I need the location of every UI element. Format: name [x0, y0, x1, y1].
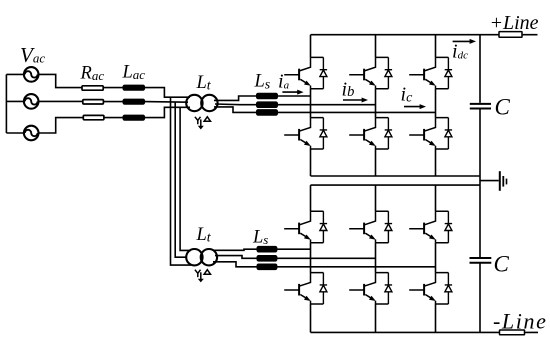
transistor Q4: [349, 118, 388, 149]
wire: source A to Rac row A: [39, 74, 83, 87]
diode D9: [385, 211, 392, 242]
wire: T2 out phase c: [213, 262, 257, 267]
wire: +Line rail: [311, 34, 538, 36]
wire: Ls to leg a (bridge 2): [277, 248, 311, 250]
wire: dc link top branch: [479, 35, 481, 176]
transistor Q2: [284, 118, 323, 149]
wire: leg a vertical (bridge1): [310, 35, 312, 176]
diode D2: [320, 118, 327, 149]
wire: Ls to leg b (bridge 1): [277, 104, 375, 106]
svg-text:C: C: [494, 252, 510, 277]
wye-delta symbol T1: [195, 117, 211, 130]
+Line terminal box: [499, 32, 522, 38]
wire: Ls to leg a (bridge 1): [277, 95, 310, 97]
wire: source B to Rac row B: [39, 100, 84, 102]
wye-delta symbol T2: [195, 270, 211, 283]
wire: leg a vertical (bridge2): [310, 185, 312, 332]
transistor Q10: [349, 273, 388, 304]
inductor Lac phase B: [123, 99, 144, 104]
wire: T2 out phase a: [213, 249, 257, 250]
transistor Q8: [284, 273, 323, 304]
transformer T2 primary winding: [186, 249, 202, 265]
ground: [499, 171, 501, 191]
diode D8: [320, 273, 327, 304]
wire: dc link bottom branch: [479, 185, 481, 332]
wire: leg b vertical (bridge2): [375, 185, 377, 332]
diode D7: [320, 211, 327, 242]
wire: Lac to transformer T1 phase C: [144, 107, 190, 117]
transistor Q3: [349, 57, 388, 88]
ac source phase A: [24, 67, 39, 82]
wire: bus stub phase B: [6, 100, 24, 102]
transistor Q1: [284, 57, 323, 88]
wire: bridge2 top rail: [311, 184, 481, 186]
wire: leg c vertical (bridge2): [435, 185, 437, 332]
wire: source C to Rac row C: [39, 118, 84, 133]
inductor Ls phase b: [257, 102, 277, 107]
transistor Q5: [409, 57, 448, 88]
svg-text:+Line: +Line: [490, 12, 539, 34]
inductor Lac phase A: [123, 85, 144, 90]
wire: Ls to leg c (bridge 2): [277, 266, 436, 268]
wire: tap phase B down to transformer T2: [175, 102, 187, 257]
ac source phase C: [24, 126, 39, 141]
current arrow idc: [453, 40, 472, 42]
diode D10: [385, 273, 392, 304]
diode D11: [445, 211, 452, 242]
inductor Ls phase c: [257, 110, 277, 115]
transistor Q6: [409, 118, 448, 149]
wire: -Line rail: [311, 331, 539, 333]
diode D12: [445, 273, 452, 304]
wire: Rac to Lac phase A: [103, 87, 123, 89]
inductor Lac phase C: [123, 115, 144, 120]
svg-text:C: C: [495, 95, 511, 120]
diode D5: [445, 57, 452, 88]
transistor Q9: [349, 211, 388, 242]
diode D3: [385, 57, 392, 88]
transistor Q7: [284, 211, 323, 242]
wire: source bus vertical: [5, 74, 7, 133]
capacitor C1: [470, 103, 491, 105]
wire: midpoint to ground: [480, 176, 499, 185]
wire: Rac to Lac phase B: [103, 101, 123, 103]
resistor Rac phase B: [83, 100, 104, 104]
transformer T1 primary winding: [186, 95, 202, 111]
wire: bridge1 bottom rail: [311, 175, 481, 177]
wire: Rac to Lac phase C: [104, 117, 123, 119]
wire: leg c vertical (bridge1): [435, 35, 437, 176]
transformer T1 secondary winding: [201, 95, 217, 111]
diode D6: [445, 118, 452, 149]
ac source phase B: [24, 94, 39, 109]
wire: tap phase C down to transformer T2: [180, 107, 191, 250]
wire: T1 out phase c: [214, 107, 257, 113]
inductor Ls phase c': [257, 264, 276, 269]
wire: T1 out phase b: [215, 103, 257, 106]
resistor Rac phase A: [82, 86, 103, 90]
inductor Ls phase a': [257, 247, 276, 252]
svg-text:-Line: -Line: [493, 309, 547, 334]
wire: tap phase A down to transformer T2: [171, 97, 192, 265]
-Line terminal box: [500, 330, 525, 335]
transistor Q11: [409, 211, 448, 242]
wire: T2 out phase b: [215, 256, 257, 259]
transformer T2 secondary winding: [201, 249, 217, 265]
inductor Ls phase a: [257, 94, 277, 99]
wire: bus stub phase C: [6, 132, 24, 134]
diode D1: [320, 57, 327, 88]
inductor Ls phase b': [257, 256, 276, 261]
wire: Lac to transformer T1 phase B: [144, 101, 188, 104]
wire: Ls to leg b (bridge 2): [277, 257, 376, 259]
wire: Ls to leg c (bridge 1): [277, 111, 435, 113]
capacitor C2: [470, 257, 492, 259]
wire: bus stub phase A: [6, 73, 24, 75]
diode D4: [385, 118, 392, 149]
resistor Rac phase C: [83, 115, 104, 119]
wire: leg b vertical (bridge1): [375, 35, 377, 176]
wire: Lac to transformer T1 phase A: [144, 88, 190, 98]
transistor Q12: [409, 273, 448, 304]
wire: T1 out phase a: [214, 96, 257, 100]
